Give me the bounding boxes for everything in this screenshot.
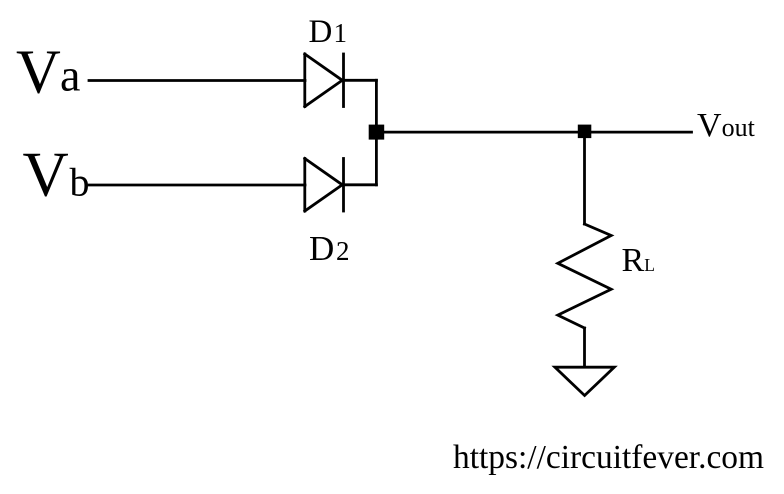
wire Va input to D1 anode xyxy=(89,79,305,82)
svg-text:https://circuitfever.com: https://circuitfever.com xyxy=(453,439,764,476)
diode D2 xyxy=(305,159,344,212)
wire D2 cathode to bus xyxy=(344,183,377,186)
wire output node to Vout xyxy=(376,131,691,134)
ground xyxy=(555,367,614,395)
wire Vb input to D2 anode xyxy=(89,184,305,187)
svg-text:Vout: Vout xyxy=(697,107,756,144)
wire D1 cathode to bus xyxy=(344,79,377,82)
diode D1 xyxy=(305,54,344,107)
wire vertical bus joining D1 and D2 cathodes xyxy=(375,80,378,185)
junction node 1 xyxy=(369,125,385,140)
wire resistor RL to ground xyxy=(583,328,586,367)
wire junction down to resistor RL xyxy=(583,132,586,224)
resistor RL xyxy=(558,224,611,328)
svg-text:D1: D1 xyxy=(309,14,348,50)
junction node 2 xyxy=(578,125,592,139)
svg-text:Va: Va xyxy=(16,39,80,107)
